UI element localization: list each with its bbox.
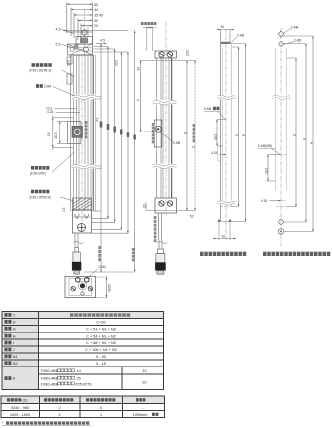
svg-text:N1: N1 (13, 355, 18, 359)
dim 16.5 view4 (268, 154, 281, 156)
svg-text:23.5: 23.5 (115, 60, 119, 66)
second mount plate (67, 74, 72, 84)
svg-text:E: E (303, 138, 307, 140)
svg-text:D: D (13, 321, 16, 325)
svg-text:2-M5: 2-M5 (173, 141, 180, 145)
cap screw (82, 30, 87, 35)
svg-text:20: 20 (142, 381, 146, 385)
dimension arrowheads (52, 3, 314, 297)
svg-text:-25: -25 (76, 377, 81, 381)
row C: CJK strip (70, 313, 130, 316)
svg-text:N2: N2 (13, 362, 18, 366)
header shading (1, 396, 165, 404)
bar right edge thick (92, 55, 94, 211)
caption 1 (CJK strip) (200, 252, 204, 256)
top dim line 35.45 (74, 14, 93, 16)
svg-text:4.15: 4.15 (261, 199, 267, 203)
break waves view3 (218, 95, 236, 100)
bottom circle 1 (279, 220, 284, 225)
lower bracket hatched (73, 198, 92, 210)
top cap bracket (67, 32, 93, 55)
leader for 4.5 (62, 30, 75, 34)
bar centerline (81, 55, 83, 233)
svg-text:50: 50 (94, 3, 98, 7)
label block: upper bracket name (CJK strip) (32, 63, 35, 67)
svg-text:F39G-4BB: F39G-4BB (41, 377, 59, 381)
top dim line 44 (71, 9, 93, 11)
svg-text:C + 88 + N1 + N2: C + 88 + N1 + N2 (86, 341, 116, 345)
top circle (279, 42, 283, 46)
bottom feature view3 (218, 221, 246, 223)
svg-text:20: 20 (94, 24, 98, 28)
svg-text:(C): (C) (23, 399, 28, 403)
svg-text:4.5: 4.5 (95, 117, 99, 122)
svg-text:0: 0 (100, 406, 102, 410)
svg-text:23.5: 23.5 (67, 60, 71, 66)
svg-text:C + 106 + N1 + N2: C + 106 + N1 + N2 (85, 348, 117, 352)
leader (62, 70, 75, 77)
svg-text:5.5: 5.5 (56, 43, 61, 47)
end view dim (106, 277, 108, 298)
cap centerline up (84, 10, 86, 55)
rotated labels bottom dims (98, 246, 101, 249)
cable view2 (157, 213, 167, 249)
svg-text:C+20: C+20 (96, 321, 105, 325)
top extension line (141, 60, 197, 62)
svg-text:4.5: 4.5 (100, 39, 105, 43)
extension lines (66, 3, 68, 34)
svg-text:C + 54 + N1 + N2: C + 54 + N1 + N2 (86, 334, 116, 338)
long vertical dimension lines view1 (84, 31, 135, 273)
bar edges view4 (275, 48, 277, 190)
svg-text:0240 - 960: 0240 - 960 (11, 406, 29, 410)
svg-text:4.5: 4.5 (62, 207, 66, 212)
cap screws on plate (70, 48, 74, 52)
svg-text:46.65: 46.65 (108, 284, 112, 292)
svg-text:G: G (13, 327, 16, 331)
bottom connectors (94, 210, 102, 212)
table1 label texts (5, 313, 18, 381)
svg-text:34: 34 (137, 67, 141, 71)
cap screws view2 (159, 52, 173, 57)
hole mark view4 (275, 154, 287, 156)
leader for 5.5 (62, 45, 72, 48)
svg-text:4.15: 4.15 (211, 151, 217, 155)
bar top edge (71, 54, 94, 56)
bottom hole mark view4 (276, 206, 287, 208)
middle bracket view2 (154, 120, 162, 147)
right dim lines view2 (186, 61, 188, 211)
svg-text:2-M8: 2-M8 (291, 26, 298, 30)
svg-text:C: C (13, 314, 16, 318)
svg-text:16.5: 16.5 (213, 134, 217, 140)
header strips (7, 398, 145, 401)
data (10, 406, 148, 417)
svg-text:I: I (13, 341, 14, 345)
bar edges view3 (220, 44, 222, 222)
svg-text:30: 30 (94, 19, 98, 23)
screws in end view (76, 278, 81, 283)
svg-text:35.45: 35.45 (94, 14, 103, 18)
cable view1 (73, 233, 83, 248)
top dim line 30 (78, 20, 93, 22)
svg-text:F39G-4BB: F39G-4BB (41, 382, 59, 386)
top dim line 50 (67, 3, 93, 5)
svg-text:F: F (137, 99, 141, 101)
svg-text:2.M6: 2.M6 (44, 85, 51, 89)
svg-text:1: 1 (100, 413, 102, 417)
svg-text:15: 15 (47, 132, 51, 136)
svg-text:52: 52 (190, 215, 194, 219)
svg-text:1020 - 1920: 1020 - 1920 (10, 413, 30, 417)
dim 16.5 view3 (217, 119, 226, 121)
upper mount plate on left edge (67, 57, 72, 64)
svg-text:4.5: 4.5 (56, 28, 61, 32)
rotated cable label strip (154, 216, 157, 219)
svg-text:2: 2 (58, 413, 60, 417)
bottom circle 2 (278, 229, 284, 235)
break waves view2 (153, 100, 179, 105)
table1 shading: label column (2, 312, 39, 390)
bottom cap view2 (155, 198, 177, 213)
top connector view3 (221, 43, 246, 45)
connector view1 (72, 248, 81, 275)
svg-text:P: P (13, 377, 16, 381)
small plate on bar (218, 146, 221, 161)
svg-text:H: H (13, 334, 16, 338)
top connector to outer vertical dim (63, 30, 128, 32)
svg-text:F39G-4BB: F39G-4BB (41, 369, 59, 373)
bottom dim 30 view3 (213, 238, 236, 240)
view3 top bracket dark bit (221, 42, 231, 44)
cap view2 (155, 51, 177, 58)
caption 2 (CJK strip) (263, 252, 266, 256)
svg-text:(F39-L05F): (F39-L05F) (30, 172, 46, 176)
rotated label on bar view1 (85, 121, 88, 124)
svg-text:5-M5: 5-M5 (204, 107, 211, 111)
label block: lower bracket name (CJK strip) (31, 190, 34, 194)
svg-text:30: 30 (222, 235, 226, 239)
svg-text:30: 30 (221, 25, 225, 29)
svg-text:10: 10 (142, 369, 146, 373)
bottom screw with cross (78, 224, 86, 232)
bar body view2 (157, 58, 172, 198)
top small dim label strip (141, 22, 144, 25)
dim verticals view3 (238, 47, 240, 207)
label block: middle fixture (CJK strip) (31, 166, 34, 170)
table1 content texts (70, 313, 147, 384)
svg-text:5-M5(M8): 5-M5(M8) (258, 144, 272, 148)
centerline view2 (165, 22, 167, 216)
svg-text:E: E (242, 134, 246, 136)
svg-text:4.15: 4.15 (47, 110, 53, 114)
svg-text:0 - 15: 0 - 15 (96, 362, 106, 366)
middle bracket dim box (53, 116, 73, 151)
table1 grid (2, 312, 164, 390)
rotated strip label left of bracket (152, 123, 155, 126)
svg-text:P25-02TS: P25-02TS (76, 382, 93, 386)
svg-text:16.5: 16.5 (54, 132, 58, 138)
svg-text:-14: -14 (76, 369, 81, 373)
svg-text:2-M5: 2-M5 (294, 39, 301, 43)
sensor bar body (view1) (71, 55, 96, 211)
top connectors (94, 46, 109, 48)
svg-text:2-M5: 2-M5 (237, 34, 244, 38)
bottom end view (square) (65, 277, 96, 298)
svg-text:(F39-L0GTB-3): (F39-L0GTB-3) (30, 69, 52, 73)
bottom extension view2 (146, 210, 196, 212)
svg-text:C + 51 + N1 + N2: C + 51 + N1 + N2 (86, 327, 116, 331)
top dim labels (94, 3, 103, 28)
svg-text:2: 2 (58, 406, 60, 410)
dim verticals view4 (295, 58, 297, 207)
break wave lower (72, 164, 102, 169)
svg-text:(30): (30) (185, 50, 189, 56)
centerline view3 (225, 29, 227, 241)
row C content shaded (39, 312, 164, 319)
break wave upper (72, 95, 102, 100)
middle bracket (68, 122, 83, 144)
connector view2 (155, 249, 166, 274)
centerline view4 (280, 28, 282, 246)
connector-tip dim line (84, 271, 135, 273)
leader 2-M5 (160, 132, 174, 143)
top diamond (278, 31, 284, 37)
bottom hole mark view3 (221, 206, 232, 208)
svg-text:20: 20 (142, 204, 146, 208)
top connectors view4 (283, 35, 313, 37)
svg-text:1000mm: 1000mm (133, 413, 148, 417)
svg-text:0 - 30: 0 - 30 (96, 355, 106, 359)
svg-text:J: J (13, 348, 15, 352)
left dim 34 (140, 61, 142, 133)
cap inner lines (68, 47, 93, 49)
rotated letter labels on dim lines (100, 122, 136, 140)
dash to bracket hole (141, 131, 157, 133)
svg-text:(F39-L05TB-D): (F39-L05TB-D) (30, 196, 51, 200)
small squares in model numbers (58, 369, 75, 385)
top dim line 20 (81, 25, 93, 27)
leader (53, 87, 75, 97)
label weight 2.M6 (36, 84, 39, 88)
svg-text:16.5: 16.5 (264, 168, 268, 174)
svg-text:44: 44 (94, 8, 98, 12)
svg-text:2-M4: 2-M4 (99, 265, 106, 269)
bottom cap (73, 210, 92, 233)
